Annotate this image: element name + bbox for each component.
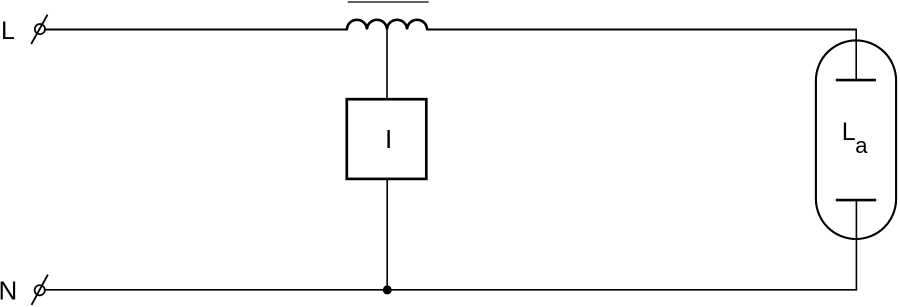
- wire top-left: [45, 29, 348, 31]
- svg-text:N: N: [0, 275, 17, 305]
- lamp envelope La: [816, 40, 896, 239]
- svg-text:L: L: [1, 17, 15, 45]
- ignitor box I: [347, 99, 427, 179]
- terminal N: [32, 275, 48, 305]
- wire inductor tap: [386, 30, 388, 100]
- lamp top electrode: [836, 79, 876, 82]
- svg-text:a: a: [855, 133, 868, 158]
- junction dot: [383, 285, 392, 294]
- lamp bottom lead: [855, 200, 857, 291]
- lamp bottom electrode: [836, 199, 876, 202]
- wire box to bottom: [386, 179, 388, 290]
- wire top-right: [426, 29, 857, 31]
- terminal L: [31, 15, 47, 44]
- inductor: [347, 20, 427, 30]
- svg-text:L: L: [842, 118, 856, 146]
- lamp top lead: [855, 29, 857, 81]
- inductor core line: [348, 1, 429, 3]
- wire bottom: [45, 289, 856, 291]
- svg-text:I: I: [385, 124, 392, 154]
